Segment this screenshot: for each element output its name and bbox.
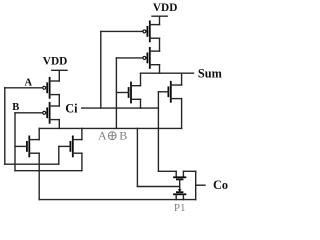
nmos Q7 (gate B, lower-left) (15, 136, 39, 156)
wire Q3 gate horizontal (101, 30, 143, 32)
wire Q3 drain to Q4 source (159, 38, 161, 51)
wire Co stub (196, 184, 205, 186)
wire Q8 source down to bus2 (81, 153, 83, 171)
wire Q6 drain up to Sum (181, 73, 183, 85)
pmos Q2 (gate B) (43, 103, 60, 123)
wire Q1 drain to Q2 source (58, 95, 60, 106)
svg-text:Ci: Ci (65, 102, 78, 116)
svg-text:Co: Co (213, 178, 228, 192)
svg-text:B: B (12, 102, 19, 113)
wire P1 top source feed (158, 170, 176, 172)
wire Co right vertical (195, 171, 197, 199)
svg-text:A: A (98, 129, 107, 143)
wire A vertical left (4, 88, 6, 164)
wire Q5 source down to Ci bus (140, 99, 142, 108)
svg-text:P1: P1 (174, 202, 186, 214)
wire P1a right lead (183, 170, 195, 172)
wire Sum bus (141, 72, 194, 74)
wire Ci riser to Q3 gate (100, 31, 102, 108)
power symbol VDD2 (top right) (152, 16, 167, 24)
wire bus1 (net A horizontal) (5, 163, 59, 165)
pmos Q3 (gate Ci, sum pull-up top) (143, 21, 160, 41)
wire Q5 drain up to Sum (140, 73, 142, 86)
junction arrow at P1b gate (178, 189, 182, 192)
wire B vertical left (14, 113, 16, 171)
wire Q4 drain to Sum bus (159, 65, 161, 74)
power symbol VDD1 (left) (52, 70, 67, 81)
transistor P1a (pass transistor, top of P1 pair) (174, 171, 185, 186)
svg-text:B: B (119, 129, 127, 143)
wire bus2 (net B horizontal) (15, 170, 82, 172)
wire Q7 drain up to xor bus (38, 128, 40, 139)
wire Q7 source down to bottom rail (38, 153, 40, 199)
wire Q4 gate horizontal (116, 57, 142, 59)
wire bus1 riser to Q8 gate (58, 146, 60, 164)
wire xor riser (Q4 gate down to xor bus) (115, 58, 117, 128)
svg-text:VDD: VDD (153, 2, 177, 14)
wire Q8 drain up to xor bus (81, 128, 83, 139)
wire B to Q2 gate (15, 112, 43, 114)
svg-text:VDD: VDD (43, 55, 67, 67)
wire Q6 source down to xor bus right end (181, 99, 183, 129)
pmos Q1 (gate A, upper-left) (43, 78, 60, 98)
nmos Q5 (gate A xor B, sum pull-down left) (116, 83, 140, 103)
nmos Q8 (gate A, lower-middle) (59, 136, 82, 156)
svg-text:A: A (25, 77, 33, 88)
transistor P1b (pass transistor, bottom of P1 pair) (174, 187, 185, 200)
wire Ci bus (82, 107, 159, 109)
label A xor B (98, 129, 127, 143)
svg-text:Sum: Sum (198, 67, 223, 81)
wire A to Q1 gate (5, 87, 43, 89)
wire bottom rail (39, 199, 196, 201)
nmos Q6 (gate Ci, sum pull-down right) (158, 82, 181, 102)
pmos Q4 (gate A xor B, sum pull-up bottom) (143, 48, 160, 68)
wire xor bus down to P1 gates (136, 128, 138, 186)
wire A xor B bus (39, 127, 181, 129)
wire P1 gate feed (137, 186, 179, 188)
wire Ci long vertical to P1 (157, 92, 159, 172)
wire Q2 drain down to xor bus (58, 120, 60, 129)
